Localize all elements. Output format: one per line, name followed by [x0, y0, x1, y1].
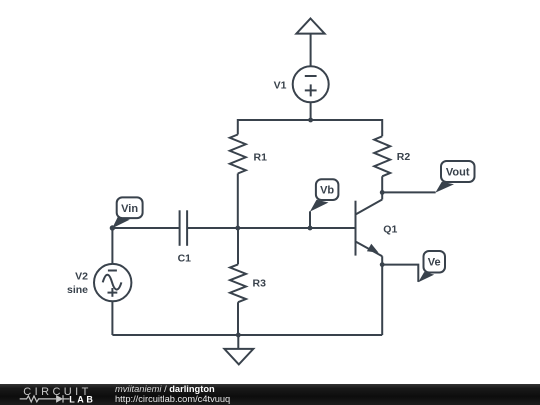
wire R3 top: [237, 228, 239, 264]
wire R2 to collector node: [381, 176, 383, 192]
voltage source V1: [293, 66, 329, 102]
flag Vb: [310, 179, 339, 211]
power supply arrow VCC: [296, 19, 324, 34]
wire Vin node down to V2: [111, 228, 113, 264]
svg-text:V1: V1: [274, 80, 287, 92]
wire C1 to Q1 base: [187, 227, 355, 229]
svg-text:Ve: Ve: [428, 257, 441, 269]
wire arrow to V1: [310, 34, 312, 67]
voltage source V2 sine: [94, 264, 131, 301]
svg-text:Q1: Q1: [383, 224, 397, 236]
flag Ve: [418, 251, 445, 282]
node Vin: [110, 225, 115, 230]
wire collector to Vout: [382, 191, 435, 193]
wire V1 to rail: [310, 102, 312, 120]
node emitter Ve: [380, 262, 385, 267]
svg-text:R1: R1: [254, 152, 268, 164]
transistor Q1: [355, 201, 357, 256]
node ground junction: [236, 333, 241, 338]
wire top rail: [238, 120, 382, 136]
svg-text:Vout: Vout: [446, 167, 470, 179]
node Vb junction: [308, 226, 313, 231]
wire bottom rail: [112, 334, 382, 336]
footer bar: [0, 384, 540, 405]
footer credit text: [115, 385, 230, 404]
wire Vin node to C1: [112, 227, 179, 229]
CircuitLab logo: [14, 384, 114, 405]
node V1-rail junction: [308, 118, 313, 123]
wire Vb stub: [309, 211, 311, 228]
wire emitter to Ve: [382, 265, 418, 282]
resistor R2: [374, 136, 390, 176]
svg-text:R3: R3: [253, 278, 267, 290]
node collector Vout: [380, 190, 385, 195]
svg-text:Vb: Vb: [320, 185, 334, 197]
svg-text:V2: V2: [75, 271, 88, 283]
resistor R3: [230, 264, 246, 302]
wire V2 to bottom rail: [111, 301, 113, 335]
resistor R1: [230, 135, 246, 174]
capacitor C1: [179, 210, 181, 246]
wire R3 bottom: [237, 302, 239, 335]
ground: [237, 335, 239, 349]
wire R1 to base node: [237, 174, 239, 229]
flag Vin: [112, 197, 142, 228]
flag Vout: [435, 161, 474, 193]
wire emitter down: [381, 265, 383, 335]
svg-text:LAB: LAB: [69, 394, 95, 404]
svg-text:C1: C1: [178, 253, 192, 265]
svg-text:R2: R2: [397, 151, 411, 163]
svg-text:sine: sine: [67, 284, 88, 296]
node base junction R1: [235, 226, 240, 231]
svg-text:Vin: Vin: [121, 203, 138, 215]
